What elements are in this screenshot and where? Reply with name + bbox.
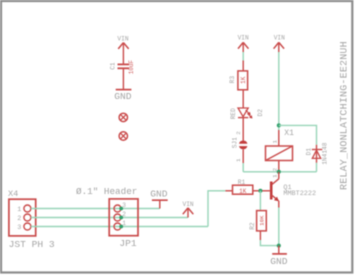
svg-text:C1: C1	[110, 62, 117, 70]
wire VIN to relay / node	[278, 52, 280, 130]
junction node Q1 base / R1 / R2	[258, 189, 262, 193]
svg-text:1K: 1K	[240, 76, 247, 84]
svg-text:GND: GND	[270, 256, 288, 267]
wire VIN to R3	[242, 52, 244, 61]
svg-text:1: 1	[235, 158, 242, 162]
svg-text:Ø.1" Header: Ø.1" Header	[76, 186, 137, 197]
supply VIN (above relay X1)	[274, 35, 286, 53]
wire SJ1 down	[242, 149, 244, 163]
solder jumper SJ1	[231, 137, 247, 149]
wire D1 to bottom node	[316, 163, 318, 172]
wire junction to R2	[259, 191, 261, 211]
connector X4 (JST PH 3)	[8, 189, 55, 250]
supply VIN (above C1)	[117, 35, 128, 49]
wire D2 to SJ1	[242, 118, 244, 141]
header JP1 (0.1" Header)	[76, 186, 138, 249]
svg-text:JP1: JP1	[119, 238, 137, 249]
svg-text:D2: D2	[257, 109, 264, 117]
supply VIN (at JP1 pin 2 net)	[183, 201, 194, 217]
mounting hole H1	[119, 113, 127, 121]
svg-text:3: 3	[17, 224, 21, 232]
svg-text:1: 1	[272, 174, 279, 178]
wire VIN to C1	[122, 43, 124, 64]
LED D2 (RED)	[230, 108, 264, 119]
ground GND (at JP1 pin 3 net)	[150, 188, 168, 208]
ground GND (below Q1)	[270, 246, 288, 268]
svg-text:1N4148: 1N4148	[322, 142, 329, 165]
junction node Q1 emitter / R2 / GND	[277, 244, 281, 248]
svg-text:SJ1: SJ1	[231, 137, 238, 148]
svg-text:1: 1	[271, 140, 278, 144]
svg-text:2: 2	[235, 131, 242, 135]
wire R3 to D2	[242, 90, 244, 108]
wire row 1 (GND net)	[31, 208, 160, 210]
junction node VIN/X1/D1	[277, 123, 281, 127]
svg-text:VIN: VIN	[183, 201, 194, 208]
svg-text:R3: R3	[229, 76, 236, 84]
svg-text:GND: GND	[150, 188, 168, 199]
svg-text:1: 1	[17, 206, 21, 214]
svg-text:VIN: VIN	[238, 35, 249, 42]
wire R2 to gnd node	[260, 240, 278, 246]
wire C1 to GND	[122, 68, 124, 89]
svg-text:X4: X4	[8, 189, 18, 199]
svg-text:1: 1	[122, 220, 126, 227]
svg-text:3: 3	[122, 202, 126, 209]
svg-text:1K: 1K	[239, 188, 247, 195]
svg-text:10K: 10K	[258, 215, 265, 226]
svg-text:VIN: VIN	[117, 35, 128, 42]
resistor R1	[225, 179, 260, 195]
relay coil X1	[266, 129, 295, 172]
wire row 3 (signal net)	[31, 226, 208, 228]
svg-text:RELAY_NONLATCHING-EE2NUH: RELAY_NONLATCHING-EE2NUH	[340, 41, 351, 190]
diode D1 1N4148	[305, 142, 328, 165]
svg-text:VIN: VIN	[274, 35, 285, 42]
svg-text:MMBT2222: MMBT2222	[283, 190, 316, 198]
svg-text:2: 2	[122, 211, 126, 218]
svg-text:X1: X1	[284, 129, 294, 138]
wire row 2 (VIN net)	[31, 217, 188, 219]
capacitor C1	[110, 59, 135, 74]
ground GND (below C1)	[114, 90, 132, 102]
bottom horizontal wire	[243, 171, 316, 173]
supply VIN (above R3)	[238, 35, 249, 53]
transistor Q1 MMBT2222	[260, 172, 316, 208]
mounting hole H2	[119, 132, 127, 140]
resistor R2	[249, 211, 266, 240]
svg-text:D1: D1	[305, 148, 312, 156]
resistor R3	[229, 61, 247, 90]
svg-text:R2: R2	[249, 222, 256, 230]
wire from JP1 pin1 up to R1	[208, 191, 225, 227]
svg-text:JST PH 3: JST PH 3	[9, 239, 55, 250]
svg-text:2: 2	[17, 215, 21, 223]
junction node X1-2/D1/Q1 collector	[277, 170, 281, 174]
wire emitter down	[278, 208, 280, 246]
svg-text:10uF: 10uF	[128, 59, 135, 74]
wire node to D1	[279, 125, 317, 144]
svg-text:RED: RED	[230, 108, 237, 119]
svg-text:GND: GND	[114, 91, 132, 102]
